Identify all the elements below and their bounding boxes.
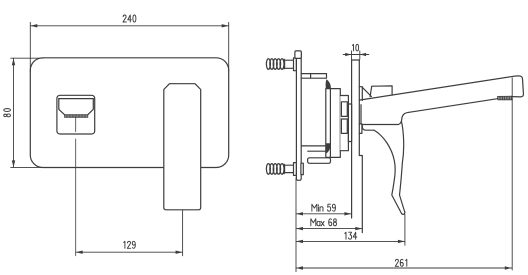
spout aerator strip front bbox=[65, 115, 88, 118]
spout root side ring bbox=[360, 105, 362, 124]
dimension 134 bbox=[296, 215, 405, 246]
top rod wedge bbox=[326, 79, 331, 88]
mounting screw top: thread coil bbox=[266, 59, 284, 70]
spout lever tab bbox=[370, 86, 392, 97]
valve cartridge nose squares bbox=[341, 102, 347, 117]
wall plate bump bbox=[359, 124, 362, 134]
valve body main block bbox=[326, 89, 341, 158]
mounting screw top: shank and washer bbox=[285, 60, 294, 68]
dimension 10 bbox=[343, 51, 369, 60]
spout bottom edge bbox=[409, 99, 498, 113]
label Min 59 bbox=[312, 204, 336, 211]
bracket bar top cap bbox=[295, 51, 301, 59]
handle front view bbox=[164, 84, 201, 210]
dimension Max 68 bbox=[296, 227, 362, 230]
wall plate side view bbox=[352, 60, 363, 233]
spout outlet front view bbox=[57, 95, 95, 134]
dimension Min 59 bbox=[296, 178, 351, 272]
label 129 bbox=[124, 241, 136, 248]
wall plate front view bbox=[30, 58, 228, 168]
label 261 bbox=[395, 259, 407, 266]
lower mounting arm bbox=[308, 158, 331, 164]
label 10 bbox=[352, 44, 358, 51]
dimension 80 bbox=[11, 58, 43, 167]
bracket bottom nut bbox=[301, 163, 303, 174]
mounting screw bottom: shank and washer bbox=[285, 165, 294, 172]
valve body mid block bbox=[340, 96, 348, 151]
label 134 bbox=[345, 232, 357, 239]
top rod bbox=[301, 74, 326, 79]
dimension 129 with spout centerline bbox=[76, 117, 183, 256]
bracket bar bbox=[296, 52, 301, 181]
handle side view bbox=[362, 112, 409, 214]
bottom wedge bbox=[326, 143, 331, 153]
mounting screw bottom: thread coil bbox=[266, 164, 284, 175]
supply pipe lines bbox=[302, 145, 326, 147]
label Max 68 bbox=[311, 219, 337, 226]
dimension 261 bbox=[296, 78, 512, 270]
spout root block bbox=[359, 87, 362, 101]
dimension 240 bbox=[30, 22, 228, 71]
label 240 bbox=[123, 15, 136, 22]
spout arm side view bbox=[359, 76, 523, 100]
spout tip aerator bbox=[498, 96, 513, 100]
label 80 bbox=[4, 109, 11, 117]
